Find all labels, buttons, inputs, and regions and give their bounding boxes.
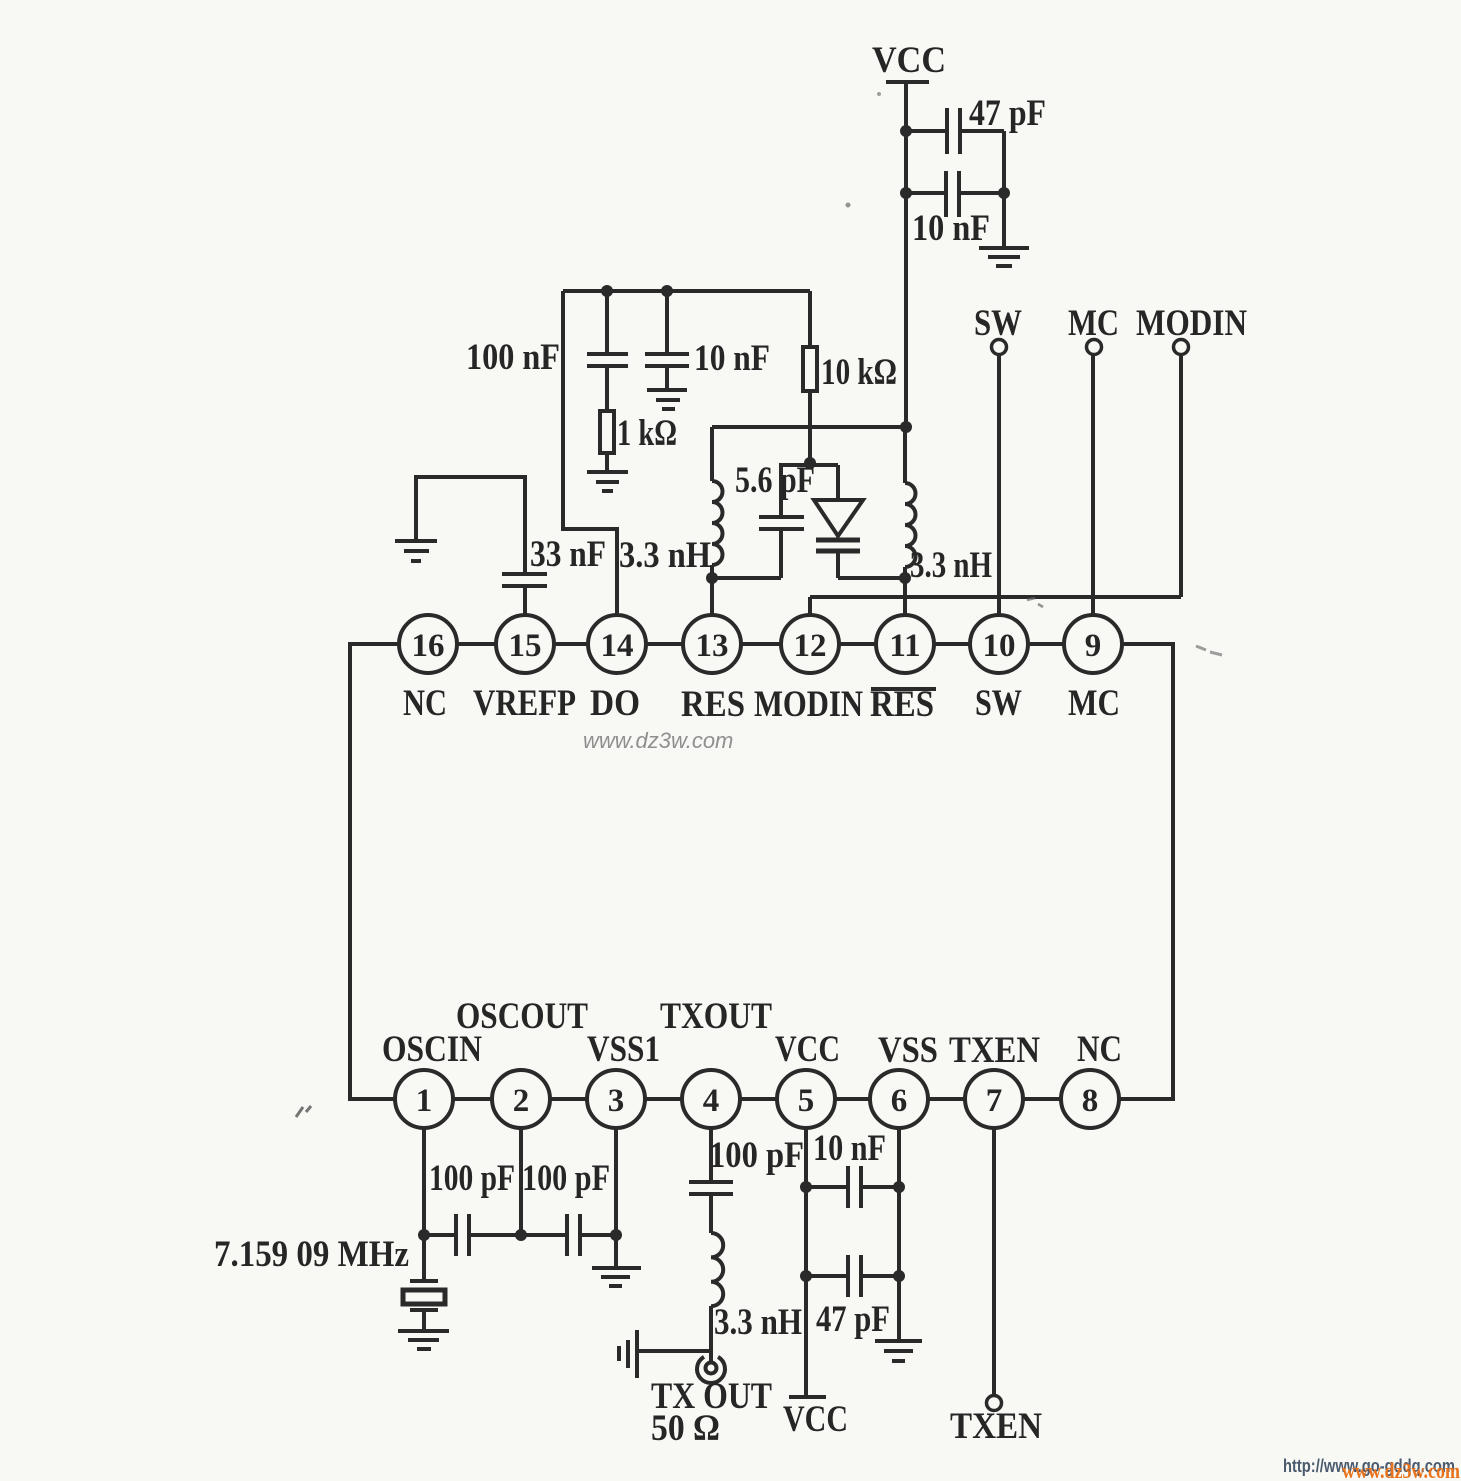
svg-text:11: 11	[889, 628, 920, 664]
svg-text:4: 4	[703, 1083, 720, 1119]
junction C2 right	[998, 187, 1010, 199]
svg-text:1 kΩ: 1 kΩ	[617, 413, 677, 454]
wire L2 to pin 11	[903, 567, 907, 615]
junction tank/VCC	[900, 421, 912, 433]
svg-text:TXOUT: TXOUT	[660, 996, 772, 1037]
svg-text:MODIN: MODIN	[1136, 303, 1247, 344]
pin 6	[870, 1070, 928, 1128]
wire TX ground to J1	[638, 1349, 711, 1353]
wire L3 to connector J1	[709, 1306, 713, 1362]
svg-text:7: 7	[986, 1083, 1003, 1119]
pin 8	[1061, 1070, 1119, 1128]
ground under X1	[398, 1331, 449, 1349]
resistor R2 10 kOhm	[803, 347, 817, 391]
pin 10	[970, 615, 1028, 673]
svg-text:10 nF: 10 nF	[912, 208, 990, 249]
pin 15	[496, 615, 554, 673]
svg-text:NC: NC	[403, 683, 447, 724]
pin 13	[683, 615, 741, 673]
ground under R1	[587, 472, 628, 491]
junction pin6/C10	[893, 1181, 905, 1193]
wire pin 6 stub	[897, 1128, 901, 1340]
wire SW to pin 10	[997, 355, 1001, 615]
pin 14	[588, 615, 646, 673]
ground under pin 6	[875, 1341, 922, 1361]
wire D1 bottom to pin 11 node	[838, 576, 905, 580]
wire VREFP riser	[416, 477, 525, 574]
svg-text:33 nF: 33 nF	[530, 534, 606, 575]
svg-text:VCC: VCC	[783, 1399, 848, 1440]
pin 12	[781, 615, 839, 673]
pin 1	[395, 1070, 453, 1128]
wire pin13 node to C5 bottom	[712, 576, 781, 580]
svg-text:MC: MC	[1068, 683, 1120, 724]
capacitor C1 47 pF	[947, 108, 960, 154]
wire pin 4 stub	[709, 1128, 713, 1182]
wire pin 3 stub	[614, 1128, 618, 1267]
wire pin 5 stub down to VCC	[804, 1128, 808, 1397]
svg-text:NC: NC	[1077, 1029, 1122, 1070]
inductor L3 3.3 nH	[711, 1233, 723, 1306]
junction pin2/C7/C8	[515, 1229, 527, 1241]
wire pin5 node to C10	[806, 1185, 847, 1189]
capacitor C7 100 pF	[456, 1214, 469, 1256]
wire rail to C3	[605, 291, 609, 354]
connector J1 TX OUT coax	[697, 1357, 725, 1383]
wire C11 to pin 6	[861, 1274, 899, 1278]
ground under C4	[647, 390, 687, 409]
wire pin 1 stub	[422, 1128, 426, 1235]
wire pin 7 stub	[992, 1128, 996, 1395]
junction VCC/C1	[900, 125, 912, 137]
pin label RES-bar (11)	[870, 684, 936, 725]
junction pin6/C11	[893, 1270, 905, 1282]
svg-text:VSS: VSS	[878, 1030, 938, 1071]
varactor diode D1	[814, 465, 863, 578]
capacitor C6 33 nF	[502, 574, 547, 586]
wire C8 to pin 3 node	[580, 1233, 616, 1237]
junction pin5/C10	[800, 1181, 812, 1193]
wire C4 to ground	[665, 366, 669, 389]
wire MODIN horizontal to pin 12	[810, 595, 1181, 599]
junction pin5/C11	[800, 1270, 812, 1282]
svg-text:100 pF: 100 pF	[522, 1158, 610, 1199]
junction pin1/X1/C7	[418, 1229, 430, 1241]
ground under C1/C2	[979, 248, 1029, 266]
capacitor C11 47 pF	[848, 1255, 861, 1297]
pin 2	[492, 1070, 550, 1128]
capacitor C10 10 nF	[848, 1166, 861, 1208]
svg-text:16: 16	[412, 628, 445, 664]
wire C7 to pin 2 node	[469, 1233, 567, 1237]
scan speck near pin 1	[296, 1106, 311, 1117]
svg-text:100 pF: 100 pF	[429, 1158, 515, 1199]
wire C10 to pin 6	[861, 1185, 899, 1189]
pin 7	[965, 1070, 1023, 1128]
pin 11	[876, 615, 934, 673]
wire pin1 node to C7	[424, 1233, 456, 1237]
wire VCC to C1 left plate	[906, 129, 946, 133]
svg-text:100 pF: 100 pF	[709, 1135, 804, 1176]
scan speck near VCC label	[877, 92, 881, 96]
svg-text:OSCOUT: OSCOUT	[456, 996, 588, 1037]
junction R2/C5/D1	[804, 457, 816, 469]
inductor L1 3.3 nH	[712, 481, 723, 565]
junction rail/C3	[601, 285, 613, 297]
svg-text:13: 13	[696, 628, 729, 664]
capacitor C2 10 nF	[946, 171, 959, 217]
wire VCC node down to L2	[903, 427, 907, 483]
svg-text:47 pF: 47 pF	[969, 93, 1046, 134]
junction rail/C4	[661, 285, 673, 297]
capacitor C4 10 nF	[645, 354, 689, 366]
svg-text:10: 10	[983, 628, 1016, 664]
wire C2 right plate to right branch	[959, 191, 1004, 195]
svg-text:50 Ω: 50 Ω	[651, 1408, 720, 1449]
wire C9 to L3	[709, 1194, 713, 1233]
capacitor C8 100 pF	[567, 1214, 580, 1256]
capacitor C9 100 pF	[689, 1182, 733, 1194]
capacitor C5 5.6 pF	[759, 463, 804, 578]
pin 16	[399, 615, 457, 673]
ground (chassis) at TX OUT	[619, 1330, 637, 1378]
svg-text:3: 3	[608, 1083, 625, 1119]
wire tank left vertical	[710, 427, 714, 481]
wire C5/D1 top box	[781, 463, 838, 467]
svg-text:6: 6	[891, 1083, 908, 1119]
wire rail to C4	[665, 291, 669, 354]
junction pin11/L2/D1	[899, 572, 911, 584]
svg-text:TXEN: TXEN	[950, 1406, 1042, 1447]
svg-text:MODIN: MODIN	[754, 684, 863, 725]
junction pin13/L1/C5	[706, 572, 718, 584]
svg-text:9: 9	[1085, 628, 1102, 664]
wire MODIN vertical	[1179, 355, 1183, 597]
scan speck left of SW crossing	[1027, 598, 1043, 607]
pin 9	[1064, 615, 1122, 673]
svg-text:15: 15	[509, 628, 542, 664]
svg-text:www.dz3w.com: www.dz3w.com	[583, 728, 733, 753]
svg-text:14: 14	[601, 628, 634, 664]
svg-text:VCC: VCC	[872, 40, 946, 81]
node SW terminal	[974, 303, 1022, 355]
svg-text:DO: DO	[590, 683, 640, 724]
wire tank top horizontal	[712, 425, 906, 429]
svg-text:RES: RES	[681, 684, 745, 725]
scan speck above 10 kOhm	[846, 203, 851, 208]
wire C6 to pin 15	[523, 586, 527, 615]
wire bias rail y=291	[563, 289, 810, 293]
wire rail to R2	[808, 291, 812, 347]
wire MC to pin 9	[1091, 355, 1095, 615]
wire R1 to ground	[605, 453, 609, 471]
wire pin 2 stub	[519, 1128, 523, 1235]
capacitor C3 100 nF	[587, 354, 628, 366]
svg-text:7.159 09 MHz: 7.159 09 MHz	[214, 1234, 409, 1275]
pin 3	[587, 1070, 645, 1128]
junction pin3/C8	[610, 1229, 622, 1241]
node VCC (top supply)	[872, 40, 946, 82]
node VCC (bottom)	[783, 1397, 848, 1440]
svg-text:3.3 nH: 3.3 nH	[714, 1302, 802, 1343]
svg-text:10 nF: 10 nF	[813, 1128, 886, 1169]
svg-text:SW: SW	[975, 683, 1022, 724]
wire pin 12 stub	[808, 597, 812, 615]
ground under pin 3	[592, 1268, 641, 1286]
wire DO riser to rail	[563, 291, 617, 615]
wire L1 to pin 13 node	[710, 565, 714, 615]
svg-text:1: 1	[416, 1083, 433, 1119]
wire VCC to C2 left plate	[906, 191, 945, 195]
svg-text:3.3 nH: 3.3 nH	[619, 535, 711, 576]
svg-text:www.dz3w.com: www.dz3w.com	[1342, 1458, 1460, 1481]
svg-text:8: 8	[1082, 1083, 1099, 1119]
IC body U1	[350, 644, 1173, 1099]
inductor L2 3.3 nH	[905, 483, 916, 567]
wire C1 right plate to right branch	[960, 129, 1004, 133]
wire pin5 node to C11	[806, 1274, 847, 1278]
node TXEN terminal	[950, 1396, 1042, 1448]
pin 4	[682, 1070, 740, 1128]
wire VCC vertical to tank node	[904, 82, 908, 427]
svg-text:5: 5	[798, 1083, 815, 1119]
resistor R1 1 kOhm	[600, 411, 614, 453]
svg-text:VCC: VCC	[775, 1029, 840, 1070]
wire right branch vertical	[1002, 131, 1006, 247]
svg-text:VSS1: VSS1	[587, 1029, 660, 1070]
pin 5	[777, 1070, 835, 1128]
svg-text:12: 12	[794, 628, 827, 664]
svg-text:10 nF: 10 nF	[694, 338, 770, 379]
svg-text:VREFP: VREFP	[473, 683, 576, 724]
svg-text:3.3 nH: 3.3 nH	[910, 545, 992, 586]
node MC terminal	[1068, 303, 1119, 355]
wire C3 to R1	[605, 366, 609, 411]
svg-text:TXEN: TXEN	[949, 1030, 1040, 1071]
svg-text:100 nF: 100 nF	[466, 337, 560, 378]
ground at VREFP branch	[395, 541, 437, 561]
node MODIN terminal	[1136, 303, 1247, 355]
svg-text:10 kΩ: 10 kΩ	[821, 352, 897, 393]
scan speck right of IC corner	[1196, 646, 1222, 655]
crystal X1 7.15909 MHz	[403, 1235, 445, 1330]
junction VCC/C2	[900, 187, 912, 199]
svg-text:47 pF: 47 pF	[816, 1299, 890, 1340]
svg-text:2: 2	[513, 1083, 530, 1119]
wire R2 to varactor node	[808, 391, 812, 462]
